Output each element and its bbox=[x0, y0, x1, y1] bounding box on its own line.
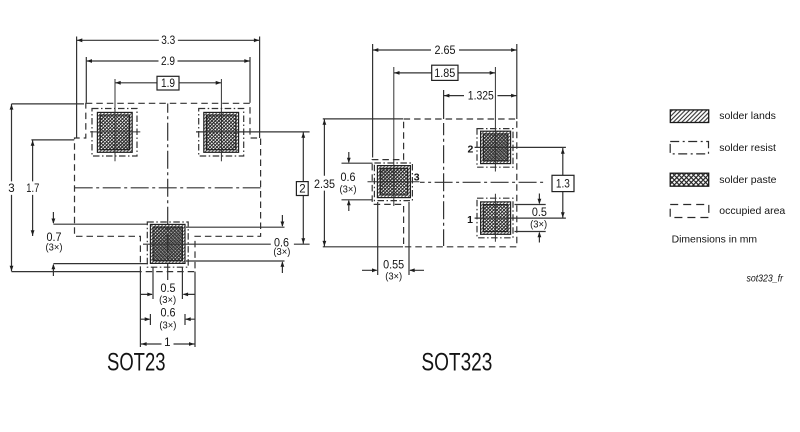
SOT323 pad3 solder land bbox=[377, 166, 410, 198]
SOT23 horizontal center axis bbox=[73, 187, 262, 189]
svg-text:3.3: 3.3 bbox=[161, 35, 175, 47]
SOT323 pad3 land bottom ext left bbox=[342, 199, 373, 201]
SOT23 pad2 centerline horizontal and ext for dim 2 bbox=[196, 131, 310, 133]
svg-text:0.6: 0.6 bbox=[341, 172, 356, 184]
SOT23 pad2 solder resist bbox=[199, 109, 244, 157]
svg-text:2: 2 bbox=[467, 143, 473, 155]
svg-text:2.9: 2.9 bbox=[161, 56, 175, 68]
svg-text:3: 3 bbox=[8, 183, 14, 195]
legend occupied area swatch bbox=[670, 205, 709, 218]
dimension 1 bottom SOT23 bbox=[141, 342, 195, 346]
svg-text:solder lands: solder lands bbox=[719, 110, 776, 122]
dimension 1.85 boxed bbox=[394, 65, 496, 80]
dimension 1.3 boxed bbox=[552, 148, 574, 218]
svg-text:sot323_fr: sot323_fr bbox=[747, 274, 784, 285]
SOT323 pad1 solder paste bbox=[483, 205, 508, 232]
SOT323 pad1 solder resist bbox=[477, 198, 513, 238]
SOT323 pad2 solder resist bbox=[477, 129, 513, 168]
SOT23 pad1 centerline horizontal bbox=[90, 131, 140, 133]
svg-text:Dimensions in mm: Dimensions in mm bbox=[672, 235, 757, 246]
SOT23 ticks paste edges bottom bbox=[153, 267, 182, 299]
dimension 0.5 (3x) bottom SOT23 bbox=[140, 293, 195, 297]
svg-text:(3×): (3×) bbox=[159, 295, 176, 306]
dimension 0.6 (3x) left of SOT323 pad3 bbox=[347, 152, 351, 211]
svg-text:solder paste: solder paste bbox=[719, 174, 776, 186]
SOT23 ext vertical 2.9 left bbox=[85, 57, 87, 103]
SOT323 occupied area outline bbox=[372, 119, 517, 247]
SOT323 pad1 solder land bbox=[481, 202, 511, 234]
SOT23 pad1 centerline vertical bbox=[114, 79, 116, 161]
svg-text:1.7: 1.7 bbox=[26, 183, 39, 195]
dimension 1.9 boxed bbox=[115, 76, 221, 90]
dimension 2.9 bbox=[86, 59, 250, 63]
SOT23 pad3 solder land bbox=[150, 224, 185, 263]
dimension 2.35 bbox=[323, 119, 327, 247]
svg-text:1.9: 1.9 bbox=[161, 78, 175, 90]
SOT323 pad2 solder land bbox=[481, 131, 511, 163]
SOT23 pad1 solder land bbox=[97, 112, 132, 152]
svg-text:(3×): (3×) bbox=[340, 185, 357, 196]
SOT323 pad3 solder resist bbox=[374, 163, 412, 201]
SOT323 ext verticals 0.55 bbox=[378, 202, 409, 275]
SOT23 ext horizontal dim3 bottom / occupied bottom ext bbox=[12, 271, 141, 273]
svg-text:0.5: 0.5 bbox=[532, 207, 547, 219]
svg-text:2.65: 2.65 bbox=[435, 45, 456, 57]
svg-text:solder resist: solder resist bbox=[719, 142, 776, 154]
SOT23 ext vertical 3.3 left bbox=[76, 37, 78, 139]
svg-text:occupied area: occupied area bbox=[719, 205, 785, 217]
SOT23 vertical center axis bbox=[167, 104, 169, 281]
svg-text:0.5: 0.5 bbox=[161, 283, 176, 295]
SOT323 pad2 centerline horizontal / 1.3 ext bbox=[475, 146, 566, 148]
svg-text:2: 2 bbox=[299, 184, 305, 196]
SOT323 pad1 paste bottom ext bbox=[515, 231, 546, 233]
svg-text:(3×): (3×) bbox=[46, 243, 63, 254]
SOT323 pads12 centerline vertical / 1.85 ext bbox=[494, 67, 496, 242]
SOT23 pad2 solder land bbox=[204, 112, 239, 152]
SOT323 ext vertical 2.65 left bbox=[372, 44, 374, 158]
svg-text:3: 3 bbox=[414, 171, 420, 183]
SOT23 ext horizontal dim3 top bbox=[12, 103, 85, 105]
SOT23 pad2 solder paste bbox=[206, 115, 236, 150]
SOT323 ext vertical 2.65/1.325 right bbox=[516, 44, 518, 119]
dimension 3 bbox=[10, 104, 14, 272]
svg-text:(3×): (3×) bbox=[159, 321, 176, 332]
SOT23 pad3 solder resist bbox=[147, 222, 188, 267]
SOT323 pad1 paste top ext bbox=[515, 204, 546, 206]
SOT323 ext horizontal 2.35 bottom bbox=[323, 246, 403, 248]
dimension 1.7 bbox=[31, 140, 35, 236]
SOT23 ext line paste top right bbox=[186, 226, 285, 228]
svg-text:1: 1 bbox=[467, 214, 473, 226]
svg-text:(3×): (3×) bbox=[273, 247, 290, 258]
SOT23 ext line land bottom left bbox=[53, 263, 148, 265]
legend solder lands swatch bbox=[670, 110, 708, 123]
SOT323 ext horizontal 2.35 top bbox=[323, 118, 403, 120]
SOT23 pad1 solder resist bbox=[92, 109, 137, 157]
svg-text:1.85: 1.85 bbox=[434, 68, 455, 80]
SOT23 pad3 solder paste bbox=[153, 227, 182, 261]
SOT23 ext line paste bottom right bbox=[186, 260, 285, 262]
SOT323 pad3 solder paste bbox=[380, 168, 408, 195]
dimension 0.6 (3x) bottom SOT23 bbox=[140, 317, 195, 321]
dimension 2 boxed bbox=[296, 132, 308, 244]
SOT23 pad1 solder paste bbox=[100, 115, 130, 150]
SOT323 center axis ext for 1.325 bbox=[443, 90, 445, 119]
svg-text:0.55: 0.55 bbox=[383, 259, 404, 271]
SOT323 pad3 centerline horizontal bbox=[368, 181, 420, 183]
dimension 1.325 bbox=[444, 94, 517, 98]
dimension 0.7 (3x) left bbox=[52, 212, 56, 276]
SOT23 ext vertical 2.9 right bbox=[249, 57, 251, 103]
svg-text:2.35: 2.35 bbox=[314, 179, 335, 191]
svg-text:1.3: 1.3 bbox=[556, 179, 570, 191]
svg-text:SOT323: SOT323 bbox=[421, 349, 492, 377]
SOT323 pad3 centerline vertical / 1.85 ext bbox=[393, 67, 395, 206]
legend solder resist swatch bbox=[670, 142, 708, 154]
dimension 0.6 (3x) right of SOT23 pad3 bbox=[281, 215, 285, 273]
SOT323 horizontal center axis bbox=[420, 181, 545, 183]
SOT23 ticks land edges bottom bbox=[150, 314, 185, 325]
svg-text:(3×): (3×) bbox=[385, 272, 402, 283]
SOT323 pad1 centerline horizontal / 1.3 ext bbox=[475, 217, 566, 219]
svg-text:1: 1 bbox=[164, 337, 170, 349]
SOT23 ext line land top left bbox=[53, 223, 148, 225]
SOT23 ext horizontal 1.7 top bbox=[31, 139, 74, 141]
dimension 2.65 bbox=[373, 48, 517, 52]
SOT323 vertical center axis bbox=[443, 123, 445, 246]
dimension 0.5 (3x) right of SOT323 pad1 bbox=[538, 194, 542, 243]
SOT23 pad2 centerline vertical bbox=[220, 79, 222, 161]
legend solder paste swatch bbox=[670, 173, 709, 186]
svg-text:SOT23: SOT23 bbox=[107, 349, 166, 377]
svg-text:0.6: 0.6 bbox=[161, 308, 176, 320]
svg-text:(3×): (3×) bbox=[530, 220, 547, 231]
dimension 3.3 bbox=[77, 38, 260, 42]
svg-text:1.325: 1.325 bbox=[468, 91, 494, 103]
SOT323 pad3 land top ext left bbox=[342, 162, 373, 164]
SOT23 ext verticals for dim 1 bbox=[140, 272, 195, 347]
SOT323 pad2 solder paste bbox=[483, 134, 508, 161]
dimension 0.55 (3x) bottom SOT323 bbox=[362, 268, 424, 272]
SOT23 pad3 centerline horizontal and ext for dim 2 bbox=[143, 243, 310, 245]
SOT23 occupied area outline bbox=[75, 103, 261, 271]
SOT23 ext vertical 3.3 right bbox=[259, 37, 261, 139]
